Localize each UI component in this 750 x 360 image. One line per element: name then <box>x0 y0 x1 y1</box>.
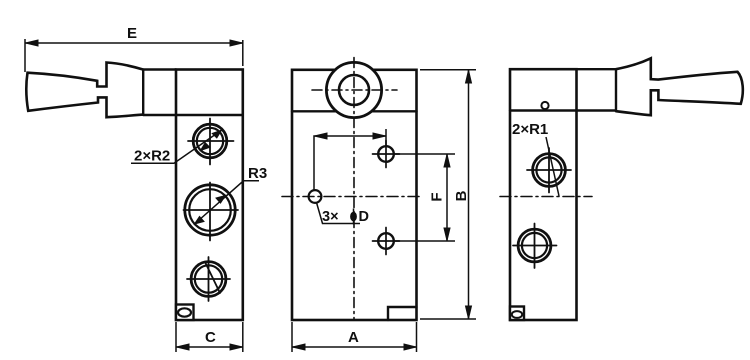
hole spacing dimension (unlabeled) <box>314 129 386 190</box>
svg-text:2×R2: 2×R2 <box>134 148 170 165</box>
lever handle outline (grip+stem+boss) left view <box>26 63 143 118</box>
svg-text:3×: 3× <box>322 209 339 225</box>
mounting boss big circle <box>326 62 381 117</box>
port circle bottom right <box>518 229 551 262</box>
valve body right view <box>510 69 577 320</box>
dimension B <box>420 70 476 319</box>
svg-text:B: B <box>453 190 470 201</box>
slot ellipse right view <box>512 311 522 318</box>
leader 3xD <box>317 203 361 224</box>
lever handle outline right view <box>616 58 743 115</box>
svg-text:R3: R3 <box>248 165 267 182</box>
port circle top (2xR2) <box>193 124 227 158</box>
svg-text:D: D <box>359 209 369 225</box>
bottom-left slot rectangle right view <box>510 307 524 321</box>
centerline horizontal through boss <box>312 89 397 91</box>
dimension E <box>25 39 243 72</box>
svg-text:F: F <box>429 192 446 201</box>
bottom-left slot rectangle <box>176 305 194 321</box>
centerline right view <box>500 196 592 198</box>
port circle bottom <box>191 262 226 297</box>
valve body left view <box>176 70 243 321</box>
top block lines left view <box>143 70 243 116</box>
leader R3 <box>194 181 259 225</box>
top block lines right view <box>510 69 616 110</box>
phi symbol <box>351 209 357 225</box>
svg-text:C: C <box>205 329 216 346</box>
dimension F <box>394 154 455 241</box>
slot ellipse <box>178 308 191 316</box>
port circle middle (R3) <box>185 185 235 235</box>
leader 2xR2 <box>131 130 222 163</box>
pilot hole lower right <box>378 233 394 249</box>
dimension A <box>292 322 417 352</box>
pilot hole upper right <box>378 146 394 162</box>
bottom step notch <box>388 307 417 320</box>
leader 2xR1 <box>546 137 559 196</box>
centerline horizontal mid body <box>282 196 423 198</box>
small hole left (3xD) <box>309 190 322 203</box>
svg-text:A: A <box>348 329 359 346</box>
small vent hole <box>541 102 548 109</box>
valve body front view <box>292 70 417 320</box>
port circle top right (2xR1) <box>533 154 566 187</box>
dimension C <box>176 322 243 352</box>
svg-text:E: E <box>127 25 137 42</box>
centerline vertical <box>353 58 355 320</box>
svg-text:2×R1: 2×R1 <box>512 121 548 138</box>
top section line <box>292 110 417 112</box>
